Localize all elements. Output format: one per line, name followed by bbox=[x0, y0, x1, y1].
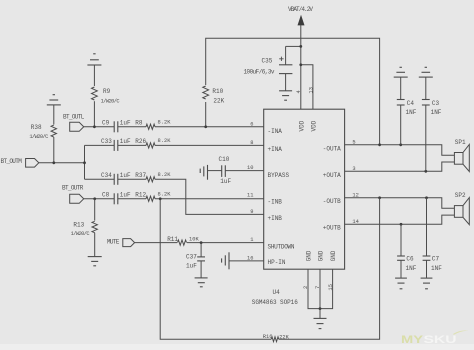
svg-text:C35: C35 bbox=[262, 57, 273, 64]
svg-text:BT_OUTL: BT_OUTL bbox=[63, 114, 85, 121]
svg-text:22K: 22K bbox=[279, 335, 289, 341]
svg-text:1/W20/C: 1/W20/C bbox=[71, 231, 90, 237]
wire GND pins bus bbox=[308, 269, 333, 308]
node feedback A to -OUTA bbox=[378, 143, 381, 146]
svg-text:C6: C6 bbox=[406, 255, 414, 262]
capacitor C34 bbox=[101, 172, 131, 185]
svg-text:+INB: +INB bbox=[268, 215, 283, 222]
port MUTE bbox=[107, 239, 135, 247]
resistor R10 bbox=[202, 85, 225, 104]
node C6 to +OUTB bbox=[400, 223, 403, 226]
node C7 to -OUTB bbox=[425, 196, 428, 199]
svg-text:22K: 22K bbox=[213, 97, 224, 104]
wire bbox=[118, 126, 146, 128]
svg-text:U4: U4 bbox=[273, 289, 281, 296]
svg-text:1uF: 1uF bbox=[120, 138, 131, 145]
svg-text:GND: GND bbox=[330, 250, 337, 261]
wire to pin 6 bbox=[155, 126, 264, 128]
wire row -INB bbox=[84, 198, 115, 200]
resistor R12 bbox=[135, 191, 171, 201]
wire HP-IN to pin 16 bbox=[229, 260, 264, 262]
wire bbox=[118, 144, 146, 146]
watermark MYSKU bbox=[401, 331, 469, 347]
ground (below C7) bbox=[421, 278, 433, 289]
svg-text:C9: C9 bbox=[102, 120, 110, 127]
capacitor C6 bbox=[397, 224, 417, 278]
node R38 junction bbox=[52, 161, 55, 164]
node split junction bbox=[83, 161, 86, 164]
svg-text:C7: C7 bbox=[432, 255, 440, 262]
ground (above R38) bbox=[47, 95, 61, 105]
ground (below C35) bbox=[279, 91, 292, 100]
capacitor C35 bbox=[244, 46, 293, 90]
svg-text:C34: C34 bbox=[101, 172, 112, 179]
svg-text:-OUTA: -OUTA bbox=[323, 145, 341, 152]
speaker SP1 bbox=[454, 139, 469, 171]
node C37 junction bbox=[200, 241, 203, 244]
wire +OUTB row bbox=[345, 215, 455, 224]
wire bbox=[118, 198, 146, 200]
svg-text:SP1: SP1 bbox=[455, 139, 466, 146]
svg-text:R10: R10 bbox=[212, 88, 223, 95]
svg-text:SP2: SP2 bbox=[455, 192, 466, 199]
wire -OUTB row bbox=[345, 198, 455, 209]
svg-text:9: 9 bbox=[250, 209, 253, 215]
svg-text:C33: C33 bbox=[101, 138, 112, 145]
node R10 feedback junction bbox=[204, 125, 207, 128]
resistor R11 bbox=[167, 236, 199, 245]
svg-text:10: 10 bbox=[247, 165, 253, 171]
svg-text:1uF: 1uF bbox=[220, 178, 231, 185]
power VBAT/4.2V bbox=[288, 6, 313, 109]
svg-text:R13: R13 bbox=[73, 222, 84, 229]
svg-text:HP-IN: HP-IN bbox=[268, 259, 286, 266]
wire bbox=[319, 309, 321, 319]
svg-text:1/W20/C: 1/W20/C bbox=[101, 99, 120, 105]
ground (above C4) bbox=[394, 67, 408, 77]
svg-text:R11: R11 bbox=[167, 236, 178, 243]
capacitor C3 bbox=[422, 77, 442, 171]
speaker SP2 bbox=[454, 192, 469, 224]
capacitor C10 bbox=[200, 156, 231, 185]
svg-text:R12: R12 bbox=[135, 192, 146, 199]
ground (main) bbox=[314, 318, 327, 328]
svg-text:8.2K: 8.2K bbox=[158, 191, 172, 197]
node C4 to -OUTA bbox=[399, 143, 402, 146]
ground (above R9) bbox=[87, 54, 101, 65]
capacitor C4 bbox=[397, 77, 417, 145]
wire bbox=[118, 178, 146, 180]
svg-text:R26: R26 bbox=[135, 138, 146, 145]
svg-text:1NF: 1NF bbox=[431, 265, 442, 272]
svg-text:8: 8 bbox=[250, 140, 253, 146]
svg-text:6: 6 bbox=[250, 121, 253, 127]
port BT_OUTM bbox=[1, 158, 39, 167]
svg-text:13: 13 bbox=[308, 87, 314, 93]
resistor R16 bbox=[263, 334, 290, 342]
node GND bus junction bbox=[319, 307, 322, 310]
wire feedback B bottom bbox=[160, 198, 379, 339]
svg-text:BYPASS: BYPASS bbox=[268, 172, 290, 179]
svg-text:1/W20/C: 1/W20/C bbox=[29, 134, 48, 140]
svg-text:VBAT/4.2V: VBAT/4.2V bbox=[288, 6, 313, 13]
svg-text:16: 16 bbox=[247, 255, 253, 261]
capacitor C33 bbox=[101, 138, 131, 151]
resistor R13 bbox=[71, 199, 98, 257]
wire row B input upper bbox=[85, 178, 115, 180]
wire to pin 8 bbox=[155, 144, 264, 146]
svg-text:MY: MY bbox=[401, 334, 424, 346]
svg-text:C10: C10 bbox=[219, 156, 230, 163]
svg-text:-INA: -INA bbox=[268, 128, 283, 135]
resistor R38 bbox=[29, 105, 56, 163]
svg-text:C3: C3 bbox=[432, 100, 440, 107]
svg-text:1uF: 1uF bbox=[120, 120, 131, 127]
svg-text:1NF: 1NF bbox=[431, 109, 442, 116]
svg-text:-OUTB: -OUTB bbox=[323, 198, 341, 205]
svg-text:R38: R38 bbox=[31, 124, 42, 131]
capacitor C8 bbox=[102, 192, 131, 205]
wire row +INA bbox=[85, 144, 115, 146]
svg-text:+INA: +INA bbox=[268, 146, 283, 153]
wire +OUTA row bbox=[345, 162, 455, 171]
svg-text:VDD: VDD bbox=[298, 120, 305, 131]
wire BT_OUTM bbox=[39, 162, 85, 164]
svg-text:SKU: SKU bbox=[424, 334, 457, 346]
wire jog to pin 9 bbox=[155, 179, 264, 214]
node R13 junction bbox=[93, 197, 96, 200]
port BT_OUTL bbox=[63, 114, 85, 132]
capacitor C9 bbox=[102, 120, 131, 133]
wire MUTE row bbox=[135, 242, 177, 244]
ground (below C6) bbox=[395, 278, 407, 289]
svg-text:GND: GND bbox=[305, 250, 312, 261]
svg-text:1NF: 1NF bbox=[406, 265, 417, 272]
resistor R26 bbox=[135, 138, 171, 148]
node feedback B junction bbox=[159, 197, 162, 200]
svg-text:R8: R8 bbox=[135, 120, 143, 127]
op-amp U4 SGM4863 SOP16 bbox=[252, 109, 345, 306]
svg-text:C37: C37 bbox=[186, 254, 197, 261]
svg-text:100uF/6,3v: 100uF/6,3v bbox=[244, 68, 275, 75]
wire to pin 11 bbox=[155, 198, 264, 200]
wire split vertical bbox=[84, 145, 86, 179]
svg-text:GND: GND bbox=[317, 250, 324, 261]
svg-text:SHUTDOWN: SHUTDOWN bbox=[268, 244, 295, 251]
svg-text:C4: C4 bbox=[407, 100, 415, 107]
svg-text:R37: R37 bbox=[135, 172, 146, 179]
svg-text:R9: R9 bbox=[103, 88, 111, 95]
resistor R37 bbox=[135, 172, 171, 182]
node VBAT-pin13 junction bbox=[299, 63, 302, 66]
ground (above C3) bbox=[419, 67, 433, 77]
svg-text:-INB: -INB bbox=[268, 198, 283, 205]
svg-text:MUTE: MUTE bbox=[107, 239, 120, 246]
svg-text:11: 11 bbox=[247, 193, 253, 199]
svg-text:4: 4 bbox=[296, 90, 302, 93]
svg-text:+OUTB: +OUTB bbox=[323, 225, 341, 232]
svg-text:BT_OUTR: BT_OUTR bbox=[62, 184, 84, 191]
node feedback B from -OUTB bbox=[378, 196, 381, 199]
svg-text:1NF: 1NF bbox=[406, 109, 417, 116]
wire to pin 1 bbox=[187, 242, 264, 244]
capacitor C37 bbox=[186, 243, 205, 278]
resistor R9 bbox=[92, 65, 120, 127]
svg-text:1: 1 bbox=[250, 237, 253, 243]
wire VDD pin13 branch bbox=[301, 65, 313, 109]
wire -OUTA row bbox=[345, 145, 455, 155]
svg-text:1uF: 1uF bbox=[120, 172, 131, 179]
svg-text:8.2K: 8.2K bbox=[158, 138, 172, 144]
capacitor HP-IN coupling bbox=[222, 252, 229, 269]
ground (below R13) bbox=[88, 257, 102, 266]
svg-text:BT_OUTM: BT_OUTM bbox=[1, 158, 23, 165]
node C3 to +OUTA bbox=[424, 170, 427, 173]
capacitor C7 bbox=[423, 198, 443, 278]
svg-text:8.2K: 8.2K bbox=[158, 172, 172, 178]
wire feedback A rail bbox=[206, 38, 380, 145]
svg-text:C8: C8 bbox=[102, 192, 110, 199]
svg-text:+OUTA: +OUTA bbox=[323, 172, 341, 179]
resistor R8 bbox=[135, 119, 171, 129]
svg-text:10K: 10K bbox=[189, 236, 199, 242]
wire BYPASS to pin 10 bbox=[225, 170, 263, 172]
svg-text:R16: R16 bbox=[263, 334, 273, 340]
svg-text:1uF: 1uF bbox=[120, 192, 131, 199]
wire C35 branch bbox=[286, 45, 301, 47]
svg-text:SGM4863 SOP16: SGM4863 SOP16 bbox=[252, 299, 298, 306]
svg-text:8.2K: 8.2K bbox=[158, 119, 172, 125]
port BT_OUTR bbox=[62, 184, 84, 203]
svg-text:VDD: VDD bbox=[310, 120, 317, 131]
node R9 junction bbox=[93, 125, 96, 128]
node VBAT-C35 junction bbox=[299, 45, 302, 48]
ground (below C37) bbox=[195, 278, 208, 287]
wire row A input (-INA) bbox=[84, 126, 115, 128]
svg-text:1uF: 1uF bbox=[186, 263, 197, 270]
